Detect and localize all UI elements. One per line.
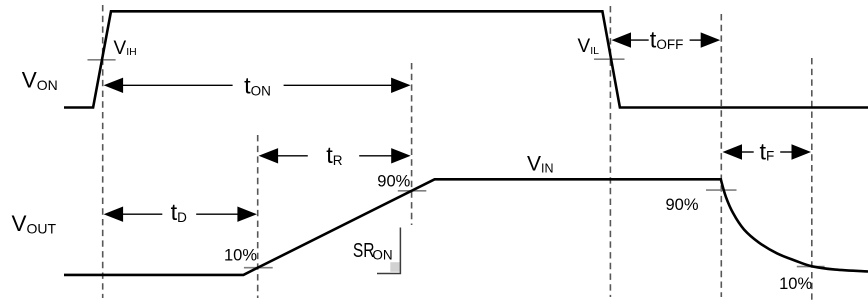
arrow tD (double-headed, x=103.6..256.9 at y=214.2) [104,207,257,222]
SR_ON slope indicator corner square [390,262,399,272]
tick 10% fall level [797,266,825,268]
tick V_IH level [88,59,116,61]
waveform V_OUT / V_IN (bottom trace with ramp and exponential fall) [64,179,868,275]
tick V_IL level [594,58,625,60]
arrow tON (double-headed, x=103.6..410.6 at y=85.3) [104,78,411,93]
svg-text:90%: 90% [377,172,410,190]
arrow tF (double-headed, x=722.5..811.0 at y=152.0) [723,144,812,159]
arrow tR (double-headed, x=258.6..410.7 at y=155.8) [259,148,411,163]
svg-text:SR: SR [353,239,375,262]
dashed guide line 5 (V_OUT 90% fall, x=721.3) [720,14,722,297]
tick 90% fall level [706,189,737,191]
svg-text:90%: 90% [666,196,699,214]
dashed guide line 1 (V_ON rise crossing, x=102.7) [102,5,104,298]
svg-text:10%: 10% [224,246,257,264]
tick 10% rise level [244,267,273,269]
dashed guide line 6 (V_OUT 10% fall, x=811.8) [811,58,813,302]
dashed guide line 2 (V_OUT 10% rise, x=257.7) [257,135,259,298]
dashed guide line 4 (V_ON fall crossing, x=610.4) [609,6,611,297]
SR_ON slope indicator lines [377,228,400,274]
tick 90% rise level [398,190,427,192]
waveform V_ON (top trace) [64,11,868,107]
arrow tOFF (double-headed, x=611.5..720.2 at y=40.1) [612,32,721,47]
svg-text:10%: 10% [779,275,812,293]
dashed guide line 3 (V_OUT 90% rise, x=411.6) [411,63,413,225]
svg-text:ON: ON [372,248,392,263]
